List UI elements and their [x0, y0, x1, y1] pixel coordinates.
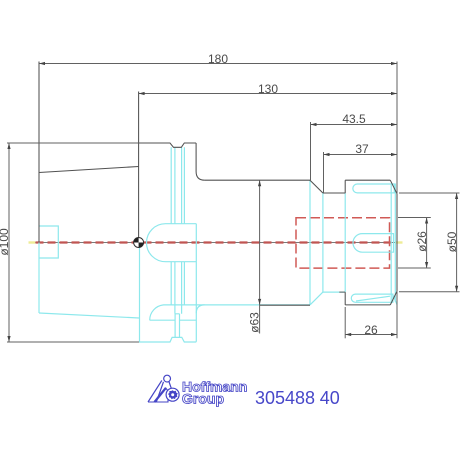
- lower chamfer to neck (cyan): [310, 292, 323, 305]
- dimension 130 arrows: [139, 92, 145, 95]
- svg-text:43.5: 43.5: [342, 112, 366, 126]
- dia50 extension stub: [339, 291, 345, 293]
- dimension dia100 line: [8, 143, 10, 342]
- svg-text:ø100: ø100: [0, 228, 11, 256]
- svg-text:ø26: ø26: [415, 231, 429, 252]
- flange left face and extension: [138, 92, 140, 243]
- flange right face with fillet: [196, 143, 205, 180]
- dimension dia100 arrows: [7, 143, 10, 149]
- extension line x323.4: [323, 152, 325, 193]
- flange top edge with groove notch: [139, 143, 197, 147]
- dimension 26 line: [345, 334, 397, 336]
- collet face line 2 (cyan): [394, 184, 396, 302]
- svg-text:130: 130: [258, 82, 278, 96]
- dimension 130 line: [139, 93, 397, 95]
- taper top edge: [39, 167, 139, 173]
- cylinder top edge: [205, 179, 310, 181]
- upper chamfer to neck: [310, 180, 323, 193]
- taper left face lower (cyan): [38, 243, 40, 314]
- dimension dia63 line: [259, 180, 261, 333]
- dimension dia26 line: [426, 218, 428, 269]
- step circle edge at x322.9 (cyan): [322, 193, 324, 292]
- extension line x345.2 lower: [344, 307, 346, 338]
- extension line x397 full: [396, 62, 398, 194]
- collet slot bottom capsule (cyan): [351, 294, 393, 302]
- dimension 26 arrows: [345, 333, 351, 336]
- svg-text:Group: Group: [182, 390, 224, 406]
- nut left face bottom: [344, 292, 346, 305]
- logo back line inner: [156, 382, 163, 402]
- nut bottom edge: [345, 304, 390, 306]
- svg-text:26: 26: [364, 323, 378, 337]
- dimension 37 arrows: [324, 153, 330, 156]
- groove edge lines lower (cyan): [171, 262, 184, 314]
- logo arm line: [169, 382, 172, 389]
- collet chamfer lower right (cyan): [393, 295, 397, 305]
- dimension dia26 arrows: [425, 218, 428, 224]
- logo gear hole: [171, 393, 174, 396]
- logo head circle: [164, 375, 171, 382]
- taper left face and extension: [38, 62, 40, 243]
- svg-text:305488: 305488: [255, 388, 315, 408]
- dimension dia50 arrows: [455, 193, 458, 199]
- extension line x397 lower: [396, 291, 398, 338]
- neck top edge: [323, 192, 345, 194]
- nut top chamfer: [390, 180, 397, 194]
- extension line x310.5: [310, 122, 312, 180]
- taper bottom edge (cyan): [39, 313, 139, 318]
- collet slot top capsule (cyan): [353, 184, 394, 193]
- nut rear face mid (cyan): [344, 193, 346, 292]
- step circle edge at x310 (cyan): [309, 180, 311, 305]
- dimension 180 line: [39, 63, 397, 65]
- coolant bore rectangle (cyan): [39, 226, 58, 258]
- centerline yellow end dash right: [395, 241, 402, 243]
- logo gear star: [168, 390, 178, 399]
- collet slot middle capsule (cyan): [353, 234, 394, 253]
- dia100 extension top: [7, 142, 139, 144]
- cylinder bottom edge (cyan): [164, 304, 311, 306]
- logo gear outer circle: [166, 388, 179, 401]
- svg-text:37: 37: [355, 142, 369, 156]
- svg-text:180: 180: [208, 52, 228, 66]
- centerline yellow end dash left: [29, 241, 36, 243]
- nut bottom chamfer: [390, 291, 397, 305]
- collet slot bottom inner line (cyan): [356, 296, 390, 301]
- flange bottom edge with groove notch (cyan): [139, 337, 196, 342]
- wire centerline gray base: [35, 242, 397, 244]
- flange left face lower (cyan): [139, 243, 141, 343]
- dimension 43.5 arrows: [311, 123, 317, 126]
- flange inner edge line (cyan): [195, 224, 197, 342]
- pocket arc (cyan): [150, 305, 164, 320]
- dia50 extension bottom: [399, 291, 460, 293]
- collet face line 1 (cyan): [390, 184, 392, 302]
- pocket bottom lip (cyan): [150, 319, 197, 321]
- logo back line outer: [148, 381, 162, 403]
- neck bottom edge (cyan): [323, 291, 345, 293]
- quadrant point marker: [134, 238, 144, 248]
- nut top edge: [345, 179, 390, 181]
- dimension 37 line: [324, 154, 398, 156]
- logo leg triangle: [155, 388, 169, 402]
- svg-text:40: 40: [320, 388, 340, 408]
- dia50 extension top: [399, 192, 460, 194]
- logo baseline: [148, 401, 168, 403]
- central slot (cyan): [175, 314, 179, 338]
- dimension dia63 arrows: [258, 180, 261, 186]
- red dashed clamping-range box: [296, 218, 390, 268]
- groove edge lines upper (cyan): [171, 147, 184, 223]
- svg-text:ø63: ø63: [248, 312, 262, 333]
- centerline red dashes: [36, 241, 396, 243]
- nut right face: [396, 194, 398, 291]
- drive slot capsule (cyan): [146, 224, 196, 262]
- flange right face lower with fillet (cyan): [196, 305, 204, 313]
- dia26 extension top: [398, 217, 431, 219]
- cylinder bottom dark overlay: [260, 304, 310, 306]
- svg-text:ø50: ø50: [445, 231, 459, 252]
- dimension 43.5 line: [311, 124, 398, 126]
- dimension dia50 line: [456, 193, 458, 292]
- dia26 extension bottom: [398, 267, 431, 269]
- dia100 extension bottom: [7, 341, 139, 343]
- nut left face top: [344, 180, 346, 193]
- dimension 180 arrows: [39, 62, 45, 65]
- logo leg thick stroke: [155, 388, 166, 402]
